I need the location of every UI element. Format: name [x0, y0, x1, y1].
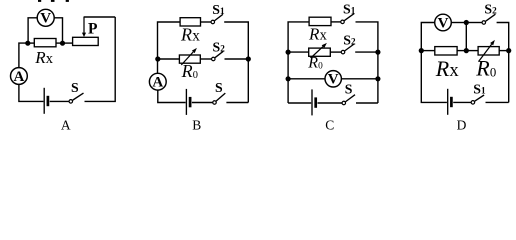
- wire D: battery to switch S1 pivot: [453, 101, 471, 103]
- junction node right-mid (circuit D): [506, 48, 511, 53]
- svg-text:V: V: [438, 15, 449, 31]
- resistor Rx (circuit A): [34, 39, 56, 47]
- switch S (circuit B): [213, 80, 226, 104]
- caption B: [192, 117, 201, 132]
- label R0 (circuit B): [181, 61, 198, 81]
- svg-text:P: P: [88, 20, 98, 37]
- label Rx (circuit A): [34, 48, 54, 67]
- svg-text:S1: S1: [473, 82, 486, 97]
- svg-text:S: S: [345, 82, 353, 97]
- wire D: left rail node down to bottom-left corner to battery: [421, 51, 447, 103]
- label Rx (circuit D): [435, 56, 460, 81]
- svg-text:S: S: [71, 80, 79, 95]
- wire D: switch S1 to bottom-right corner: [486, 101, 509, 103]
- rheostat P body (circuit A): [73, 37, 99, 45]
- svg-text:R0: R0: [181, 61, 198, 81]
- wire D: node top-mid down to node mid (circuit D): [465, 23, 467, 51]
- wire C: S2 to node right-mid: [355, 51, 378, 53]
- svg-text:S1: S1: [212, 2, 225, 17]
- junction node mid (circuit D): [464, 48, 469, 53]
- battery (circuit D): [448, 89, 452, 115]
- resistor Rx (circuit D): [435, 47, 457, 55]
- wire A: voltmeter right down to node R: [54, 18, 62, 42]
- wire B: switch S to bottom-right corner: [226, 102, 248, 104]
- circuit A: stray cropped marks at top edge of image: [38, 0, 69, 2]
- wire B: R0 right to switch S2: [200, 58, 211, 60]
- junction node right-volt (circuit C): [375, 76, 380, 81]
- svg-text:R0: R0: [307, 55, 323, 72]
- resistor Rx (circuit C): [309, 17, 331, 25]
- caption D: [457, 117, 467, 132]
- svg-text:S2: S2: [484, 1, 497, 16]
- switch S (circuit C): [342, 82, 355, 105]
- wire C: node left-volt to voltmeter: [288, 78, 325, 80]
- wire C: voltmeter to node right-volt: [341, 78, 378, 80]
- junction node R (circuit A): [60, 41, 65, 46]
- wire D: voltmeter to node top-mid: [451, 22, 466, 24]
- wire D: Rx right to node mid: [457, 50, 466, 52]
- wire C: battery to switch S pivot: [318, 102, 343, 104]
- junction node left-mid (circuit C): [286, 50, 291, 55]
- ammeter A (circuit A): [11, 68, 28, 85]
- wire B: Rx right to switch S1: [201, 21, 212, 23]
- wire A: node L to Rx left: [28, 42, 35, 44]
- svg-text:Rx: Rx: [180, 25, 200, 45]
- resistor Rx (circuit B): [180, 18, 200, 26]
- switch S (circuit A): [69, 80, 83, 103]
- caption A: [61, 117, 71, 132]
- switch S1 (circuit B): [211, 2, 225, 24]
- junction node right-mid (circuit C): [375, 50, 380, 55]
- svg-text:S: S: [215, 80, 223, 95]
- battery (circuit B): [186, 89, 190, 115]
- wire B: node left-mid to rheostat R0: [158, 58, 180, 60]
- voltmeter V (circuit D): [435, 14, 452, 31]
- svg-text:Rx: Rx: [435, 56, 460, 81]
- svg-text:V: V: [328, 72, 339, 88]
- wire A: top wire from right rail to rheostat wiper corner: [84, 16, 115, 18]
- wire A: node L to left rail corner down to ammeter: [19, 43, 28, 68]
- caption C: [325, 117, 334, 132]
- wire C: switch S to bottom-right corner: [356, 102, 378, 104]
- switch S1 (circuit D): [471, 82, 486, 105]
- ammeter A (circuit B): [149, 73, 166, 90]
- svg-text:S2: S2: [343, 32, 356, 47]
- junction node left-volt (circuit C): [286, 76, 291, 81]
- label Rx (circuit B): [180, 25, 200, 45]
- rheostat P wiper arrow (circuit A): [82, 17, 86, 38]
- rheostat R0 wiper arrow (circuit D): [479, 40, 495, 62]
- switch S2 (circuit C): [341, 32, 356, 54]
- wire D: R0 right to node right-mid: [499, 50, 509, 52]
- svg-text:R0: R0: [475, 55, 496, 80]
- wire D: node mid to rheostat R0: [466, 50, 478, 52]
- svg-text:A: A: [152, 75, 163, 91]
- wire D: right rail node down to bottom-right corner: [508, 51, 510, 103]
- switch S2 (circuit D): [482, 1, 497, 24]
- switch S2 (circuit B): [212, 40, 226, 61]
- svg-text:S2: S2: [213, 40, 226, 55]
- svg-text:Rx: Rx: [34, 48, 54, 67]
- wire C: bottom-left corner to battery: [288, 102, 311, 104]
- junction node right-mid (circuit B): [246, 56, 251, 61]
- junction node top-mid (circuit D): [464, 20, 469, 25]
- svg-text:S1: S1: [343, 1, 356, 16]
- svg-text:V: V: [40, 11, 51, 27]
- svg-text:A: A: [13, 69, 24, 85]
- wire C: R0 right to switch S2: [330, 51, 341, 53]
- svg-text:D: D: [457, 117, 467, 132]
- wire C: S1 to top-right corner down right rail: [356, 22, 378, 103]
- wire A: battery to switch S pivot: [50, 100, 69, 102]
- wire D: node top-mid to switch S2: [466, 22, 482, 24]
- wire D: top-left corner to voltmeter: [421, 23, 434, 51]
- svg-text:Rx: Rx: [308, 24, 328, 43]
- wire B: ammeter down to bottom-left corner to battery: [158, 90, 186, 102]
- wire C: top-left corner down left rail: [288, 22, 309, 103]
- svg-text:C: C: [325, 117, 334, 132]
- label Rx (circuit C): [308, 24, 328, 43]
- svg-text:B: B: [192, 117, 201, 132]
- wire D: S2 to top-right corner down right rail: [497, 23, 509, 49]
- label R0 (circuit D): [475, 55, 496, 80]
- rheostat R0 body (circuit D): [478, 47, 499, 55]
- wire B: top-left corner down left rail to ammeter: [158, 22, 181, 73]
- voltmeter V (circuit A): [37, 9, 54, 26]
- junction node left-mid (circuit B): [155, 56, 160, 61]
- battery (circuit A): [44, 88, 48, 114]
- rheostat R0 body (circuit C): [309, 48, 331, 56]
- battery (circuit C): [312, 89, 316, 115]
- wire B: battery to switch S pivot: [192, 102, 213, 104]
- voltmeter V (circuit C): [325, 71, 341, 88]
- wire A: Rx right to node R: [56, 42, 63, 44]
- wire D: node left-mid to Rx: [421, 50, 435, 52]
- wire B: S1 to top-right corner down right rail: [224, 22, 248, 57]
- wire B: S2 to node right-mid: [225, 58, 249, 60]
- label R0 (circuit C): [307, 55, 323, 72]
- label P (circuit A): [88, 20, 98, 37]
- svg-text:A: A: [61, 117, 71, 132]
- wire A: node L up to voltmeter left: [28, 18, 37, 42]
- rheostat R0 wiper arrow (circuit B): [181, 48, 197, 65]
- junction node L (circuit A): [25, 41, 30, 46]
- switch S1 (circuit C): [341, 1, 356, 23]
- wire C: node left-mid to rheostat R0: [288, 51, 309, 53]
- wire A: ammeter to bottom-left corner to battery: [19, 84, 44, 101]
- wire A: switch to bottom-right corner up right rail to top: [85, 17, 116, 101]
- wire A: node R to rheostat P left terminal: [63, 42, 73, 44]
- wire C: Rx right to switch S1: [331, 21, 341, 23]
- rheostat R0 wiper arrow (circuit C): [311, 43, 327, 58]
- junction node left-mid (circuit D): [419, 48, 424, 53]
- wire B: right rail node to bottom-right corner: [247, 59, 249, 103]
- rheostat R0 body (circuit B): [179, 55, 200, 63]
